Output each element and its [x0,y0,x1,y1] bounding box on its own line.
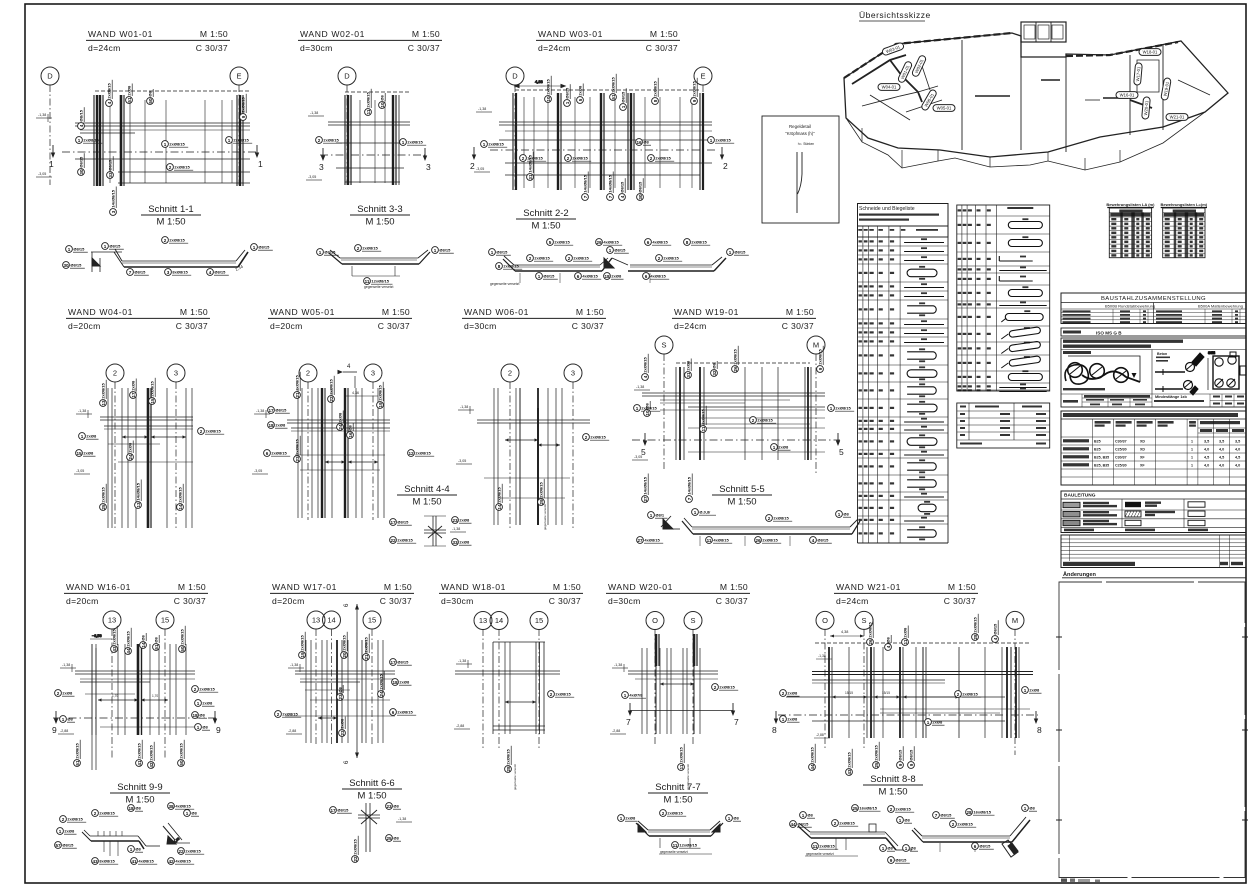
svg-text:9: 9 [241,115,246,118]
svg-text:2xØ8/15: 2xØ8/15 [653,80,658,96]
svg-text:W18-01: W18-01 [1143,50,1158,55]
labels Schnitt 1-1 [66,246,88,253]
svg-text:2: 2 [529,256,532,261]
svg-text:2xØ8: 2xØ8 [625,816,636,821]
svg-text:2xØ8/15: 2xØ8/15 [555,692,571,697]
svg-text:2xØ8/15: 2xØ8/15 [506,748,511,764]
section 4-4 cross detail [424,516,446,546]
svg-text:Schnitt 8-8: Schnitt 8-8 [870,774,915,785]
svg-text:9: 9 [818,367,823,370]
svg-text:d=24cm: d=24cm [538,43,571,53]
svg-text:WAND W18-01: WAND W18-01 [441,582,506,592]
svg-text:2xØ8: 2xØ8 [86,434,97,439]
svg-text:Ø8/15: Ø8/15 [109,244,121,249]
svg-text:1: 1 [838,512,841,517]
svg-text:M 1:50: M 1:50 [156,217,185,228]
svg-text:Ø8/15: Ø8/15 [621,91,626,103]
svg-text:7: 7 [129,270,132,275]
svg-text:2xØ8: 2xØ8 [131,380,136,391]
svg-text:7: 7 [626,717,631,727]
svg-text:2xØ8/15: 2xØ8/15 [590,435,606,440]
svg-text:1: 1 [624,693,627,698]
svg-text:17: 17 [330,808,336,813]
svg-text:4,0: 4,0 [1204,448,1209,452]
svg-text:Ø8: Ø8 [148,90,153,96]
axis lines W20 [654,629,656,745]
revision table [1061,535,1246,568]
labels Schnitt 6-6 [330,807,352,814]
svg-text:1: 1 [729,250,732,255]
dim arrows W16 [98,699,138,701]
labels W04 [79,433,99,440]
svg-text:Ø8/15: Ø8/15 [940,813,952,818]
svg-text:11: 11 [903,639,908,644]
svg-text:Ø8/15: Ø8/15 [909,749,914,761]
svg-text:24: 24 [338,424,343,430]
svg-text:M 1:50: M 1:50 [727,497,756,508]
labels Schnitt 7-7 [618,815,638,822]
svg-text:2xØ8/15: 2xØ8/15 [973,616,978,632]
svg-text:15/15: 15/15 [845,691,853,695]
svg-text:D: D [47,72,53,81]
svg-text:6: 6 [392,710,395,715]
svg-text:24: 24 [379,691,384,697]
svg-text:4xØ8/15: 4xØ8/15 [652,240,668,245]
svg-text:-2,88: -2,88 [456,724,464,728]
axis line D (W03) [514,85,516,190]
svg-text:Ø8: Ø8 [1029,806,1035,811]
svg-text:Regeldetail: Regeldetail [789,124,811,129]
svg-text:d=24cm: d=24cm [88,43,121,53]
svg-text:50: 50 [179,760,184,766]
svg-text:17: 17 [131,392,136,398]
labels W19 [634,405,661,412]
svg-text:2xØ8/15: 2xØ8/15 [180,628,185,644]
svg-text:1: 1 [773,445,776,450]
svg-text:Ø8: Ø8 [645,402,650,408]
svg-text:1: 1 [434,248,437,253]
svg-text:4,0: 4,0 [1235,464,1240,468]
svg-text:4,0: 4,0 [1204,464,1209,468]
svg-text:13: 13 [312,616,320,625]
svg-text:WAND W04-01: WAND W04-01 [68,307,133,317]
svg-text:6: 6 [266,451,269,456]
svg-text:2xØ8/15: 2xØ8/15 [241,96,246,112]
svg-text:18: 18 [128,806,134,811]
svg-text:-1,38: -1,38 [818,654,826,658]
svg-text:Ø8: Ø8 [712,362,717,368]
svg-text:-1,38: -1,38 [78,409,86,413]
svg-text:2: 2 [306,369,310,378]
section 3-3 drawing [329,250,430,276]
svg-text:WAND W16-01: WAND W16-01 [66,582,131,592]
svg-text:1: 1 [710,138,713,143]
svg-text:2xØ8/15: 2xØ8/15 [149,744,154,760]
Ruettelluecken box [1061,338,1246,407]
svg-text:2xØ8/15: 2xØ8/15 [112,628,117,644]
svg-text:13: 13 [108,616,116,625]
svg-text:Ø8: Ø8 [910,846,916,851]
labels W21 [780,690,800,697]
svg-text:Ø8: Ø8 [348,424,353,430]
svg-text:Ø8/15: Ø8/15 [337,808,349,813]
svg-text:14: 14 [497,504,502,510]
svg-text:Schnitt 7-7: Schnitt 7-7 [655,782,700,793]
svg-text:-1,38: -1,38 [290,663,298,667]
svg-text:W05-01: W05-01 [937,106,952,111]
svg-text:2xØ8/15: 2xØ8/15 [83,138,99,143]
svg-text:M 1:50: M 1:50 [576,307,604,317]
svg-text:1: 1 [197,725,200,730]
svg-text:WAND W02-01: WAND W02-01 [300,29,365,39]
svg-text:14xØ8/15: 14xØ8/15 [111,189,116,207]
svg-text:B500B Rundstabbewehrung: B500B Rundstabbewehrung [1105,304,1155,309]
section 1-1 drawing [91,249,248,272]
axis circle D (W02) [338,67,356,85]
section 2-2 drawing [503,256,726,283]
svg-text:2: 2 [277,712,280,717]
svg-text:4: 4 [79,124,84,127]
svg-text:2xØ8: 2xØ8 [778,445,789,450]
svg-text:M 1:50: M 1:50 [180,307,208,317]
svg-text:1: 1 [728,816,731,821]
svg-text:25: 25 [874,762,879,768]
svg-text:-1,38: -1,38 [478,107,486,111]
svg-text:M 1:50: M 1:50 [384,582,412,592]
svg-text:4: 4 [643,375,648,378]
svg-text:B25, B35: B25, B35 [1094,464,1109,468]
svg-text:6: 6 [974,844,977,849]
svg-text:2xØ8/15: 2xØ8/15 [107,82,112,98]
svg-text:Bewehrungslisten LA (m): Bewehrungslisten LA (m) [1106,202,1155,207]
svg-text:2xØ8/15: 2xØ8/15 [868,621,873,637]
svg-text:Ø8: Ø8 [393,836,399,841]
svg-text:19: 19 [300,652,305,658]
svg-text:d=30cm: d=30cm [300,43,333,53]
serpentine bar diagram [1065,356,1140,384]
svg-text:Schnitt 5-5: Schnitt 5-5 [719,484,764,495]
svg-text:Stüt: Stüt [1208,351,1216,355]
svg-text:gegenseite versetzt: gegenseite versetzt [513,764,517,790]
svg-text:1: 1 [491,250,494,255]
svg-text:2: 2 [662,811,665,816]
svg-text:1: 1 [650,513,653,518]
svg-text:WAND W03-01: WAND W03-01 [538,29,603,39]
svg-text:24: 24 [128,454,133,460]
svg-text:2: 2 [658,256,661,261]
svg-text:2xØ8/15: 2xØ8/15 [169,142,185,147]
svg-text:2: 2 [567,156,570,161]
building outline overview sketch [844,22,1228,170]
svg-text:10: 10 [645,410,650,416]
svg-text:2xØ8/15: 2xØ8/15 [329,378,334,394]
svg-text:2xØ8/15: 2xØ8/15 [488,142,504,147]
svg-text:57: 57 [55,843,61,848]
svg-text:30: 30 [63,263,69,268]
svg-text:1: 1 [62,717,65,722]
wall W05 linework [287,376,390,518]
svg-text:-3,05: -3,05 [634,455,642,459]
axis circle 13 (W17) [307,611,325,629]
svg-text:27: 27 [637,538,643,543]
svg-text:2xØ8/15: 2xØ8/15 [101,486,106,502]
svg-text:51: 51 [127,97,132,103]
svg-text:d=30cm: d=30cm [464,321,497,331]
svg-text:7: 7 [935,813,938,818]
svg-text:Ø8/15: Ø8/15 [565,87,570,99]
svg-text:7: 7 [583,195,588,198]
svg-text:14xØ8/15: 14xØ8/15 [136,482,141,500]
svg-text:gegenseite versetzt: gegenseite versetzt [490,282,519,286]
svg-text:2xØ8/15: 2xØ8/15 [643,356,648,372]
svg-text:2xØ8/15: 2xØ8/15 [362,246,378,251]
svg-text:2: 2 [194,687,197,692]
svg-text:gegenseite versetzt: gegenseite versetzt [806,852,834,856]
Beton exposure class table [1061,411,1246,485]
svg-text:Ø8/15: Ø8/15 [397,520,409,525]
svg-text:4xØ8/15: 4xØ8/15 [650,274,666,279]
svg-text:11: 11 [707,538,712,543]
cut arrows section 5-5 [643,441,647,447]
svg-text:Ø8/15: Ø8/15 [214,270,226,275]
svg-text:15: 15 [150,398,155,404]
svg-text:4: 4 [107,101,112,104]
svg-text:WAND W01-01: WAND W01-01 [88,29,153,39]
svg-text:2xØ8/15: 2xØ8/15 [667,811,683,816]
dim arrows W06 [505,439,538,441]
labels Schnitt 9-9 [60,816,87,823]
svg-text:Ø8: Ø8 [67,717,73,722]
svg-text:3: 3 [167,270,170,275]
labels W02 [316,137,343,144]
svg-text:B500A Mattenbewehrung: B500A Mattenbewehrung [1198,304,1243,309]
svg-text:Übersichtsskizze: Übersichtsskizze [859,10,931,20]
svg-text:4,5: 4,5 [1235,456,1240,460]
svg-text:1: 1 [905,846,908,851]
axis lines W19 [663,354,665,470]
svg-text:-2,88: -2,88 [288,729,296,733]
svg-text:43: 43 [847,769,852,775]
svg-text:21: 21 [364,654,369,660]
svg-text:M 1:50: M 1:50 [878,787,907,798]
cut arrows section 1-1 [51,153,55,159]
svg-text:Ø8: Ø8 [643,140,649,145]
svg-text:Ø8: Ø8 [393,804,399,809]
BAUSTAHLZUSAMMENSTELLUNG table [1061,293,1246,324]
svg-text:44: 44 [810,764,815,770]
svg-text:50: 50 [148,98,153,104]
svg-text:27: 27 [643,496,648,502]
svg-text:2xØ8/15: 2xØ8/15 [233,138,249,143]
svg-text:d=24cm: d=24cm [836,596,869,606]
svg-text:2xØ8/15: 2xØ8/15 [397,710,413,715]
svg-text:1: 1 [620,816,623,821]
svg-text:2xØ8/15: 2xØ8/15 [762,538,778,543]
svg-text:Schnitt 6-6: Schnitt 6-6 [349,778,394,789]
svg-text:1: 1 [927,720,930,725]
axis circle 2 (W05) [299,364,317,382]
svg-text:-3,05: -3,05 [308,175,316,179]
svg-text:2: 2 [568,256,571,261]
svg-text:18: 18 [268,423,274,428]
svg-text:3: 3 [174,369,178,378]
svg-text:E: E [236,72,241,81]
wall W06 linework [477,388,590,525]
svg-text:2xØ8/15: 2xØ8/15 [99,811,115,816]
svg-text:Ø8/15: Ø8/15 [324,250,336,255]
svg-text:2xØ8/15: 2xØ8/15 [295,438,300,454]
svg-text:2xØ8: 2xØ8 [128,442,133,453]
svg-text:2xØ8/15: 2xØ8/15 [378,384,383,400]
svg-text:C 30/37: C 30/37 [549,596,581,606]
svg-text:2xØ8/15: 2xØ8/15 [773,516,789,521]
wall W03 elevation linework [490,79,718,190]
axis circle 13 (W16) [103,611,121,629]
svg-text:2: 2 [470,161,475,171]
svg-text:4xØ7/8: 4xØ7/8 [629,693,643,698]
svg-text:26: 26 [733,366,738,372]
svg-text:E: E [700,72,705,81]
svg-text:Ø8/15: Ø8/15 [496,250,508,255]
svg-text:5: 5 [549,240,552,245]
svg-text:2: 2 [169,165,172,170]
svg-text:15: 15 [368,616,376,625]
svg-text:1: 1 [164,142,167,147]
svg-text:2xØ8/15: 2xØ8/15 [663,256,679,261]
svg-text:2: 2 [57,691,60,696]
svg-text:29: 29 [539,499,544,505]
svg-text:22: 22 [329,396,334,402]
svg-text:15: 15 [161,616,169,625]
svg-text:3: 3 [111,210,116,213]
svg-text:2xØ8/15: 2xØ8/15 [407,140,423,145]
svg-text:Ø8/15: Ø8/15 [543,274,555,279]
svg-text:11: 11 [679,764,684,769]
svg-text:Ø8: Ø8 [191,811,197,816]
svg-text:1: 1 [1191,448,1193,452]
svg-text:2: 2 [782,691,785,696]
axis line E (W03) [702,85,704,190]
svg-text:"Kröpfmass (h)": "Kröpfmass (h)" [785,131,815,136]
svg-text:2xØ8: 2xØ8 [83,451,94,456]
axis circle 2 (W06) [501,364,519,382]
axis line D [49,85,51,185]
svg-text:B25: B25 [1094,448,1101,452]
svg-text:1: 1 [186,811,189,816]
svg-text:8xØ8/15: 8xØ8/15 [172,270,188,275]
svg-text:4xØ8/15: 4xØ8/15 [713,538,729,543]
svg-text:9: 9 [216,725,221,735]
svg-text:XD: XD [1140,440,1145,444]
svg-text:M 1:50: M 1:50 [720,582,748,592]
svg-text:13: 13 [479,616,487,625]
svg-text:4xØ8/15: 4xØ8/15 [582,274,598,279]
vibration detail right 2 (column section) [1208,351,1246,390]
svg-text:44: 44 [790,822,796,827]
svg-text:2: 2 [550,692,553,697]
svg-text:M 1:50: M 1:50 [200,29,228,39]
svg-text:2xØ8/15: 2xØ8/15 [174,165,190,170]
svg-text:2xØ8/15: 2xØ8/15 [366,91,371,107]
svg-text:2xØ8/15: 2xØ8/15 [573,256,589,261]
axis circle M (W21) [1006,611,1024,629]
dim arrows W05 [325,461,345,463]
svg-text:8: 8 [1037,725,1042,735]
dim arrows W04 [122,436,148,438]
svg-text:C 30/37: C 30/37 [944,596,976,606]
svg-text:h=. Stärken: h=. Stärken [798,142,815,146]
section 8-8 drawing [798,817,1030,857]
svg-text:12: 12 [408,451,414,456]
svg-text:9: 9 [909,763,914,766]
svg-text:25: 25 [386,836,392,841]
svg-text:1: 1 [636,406,639,411]
svg-text:WAND W05-01: WAND W05-01 [270,307,335,317]
wall W21 linework [778,643,1038,738]
svg-text:XD: XD [1140,448,1145,452]
svg-text:2xØ8/15: 2xØ8/15 [101,382,106,398]
svg-text:Schnitt 3-3: Schnitt 3-3 [357,204,402,215]
svg-text:WAND W20-01: WAND W20-01 [608,582,673,592]
axis lines W21 [824,629,826,750]
svg-text:Ø8/15: Ø8/15 [397,660,409,665]
svg-text:1: 1 [81,434,84,439]
svg-text:gegenseite versetzt: gegenseite versetzt [543,504,547,530]
svg-text:14: 14 [178,504,183,510]
svg-text:M: M [1012,616,1018,625]
svg-text:2xØ8/15: 2xØ8/15 [895,807,911,812]
svg-text:Ø8: Ø8 [154,636,159,642]
svg-text:2xØ8/15: 2xØ8/15 [539,481,544,497]
svg-text:43: 43 [112,646,117,652]
svg-text:2: 2 [723,161,728,171]
axis circle O (W20) [646,612,664,630]
wall tags on overview [882,42,905,56]
svg-text:4xØ8/15: 4xØ8/15 [175,804,191,809]
svg-text:44: 44 [126,648,131,654]
svg-text:2xØ8/15: 2xØ8/15 [719,685,735,690]
svg-text:2xØ8/15: 2xØ8/15 [962,692,978,697]
svg-text:2xØ8/15: 2xØ8/15 [572,156,588,161]
svg-text:1: 1 [402,140,405,145]
svg-text:11: 11 [813,844,818,849]
svg-text:D: D [344,72,350,81]
axis circle 3 (W04) [167,364,185,382]
svg-text:2xØ8/15: 2xØ8/15 [839,821,855,826]
svg-text:3: 3 [319,162,324,172]
svg-text:2xØ8/15: 2xØ8/15 [415,451,431,456]
svg-text:ØB/15: ØB/15 [79,109,84,121]
axis circle M (W19) [807,336,825,354]
svg-text:30: 30 [638,194,643,200]
axis circle 2 (W04) [106,364,124,382]
svg-text:Ø8/15: Ø8/15 [70,263,82,268]
svg-text:16: 16 [636,140,642,145]
svg-text:Ø8/15: Ø8/15 [134,270,146,275]
svg-text:M 1:50: M 1:50 [178,582,206,592]
svg-text:2xØ8/15: 2xØ8/15 [353,838,358,854]
svg-text:14xØ8/15: 14xØ8/15 [528,154,533,172]
svg-text:Ø8: Ø8 [141,634,146,640]
axis circle 14 (W18) [490,612,508,630]
svg-text:Ø8: Ø8 [843,512,849,517]
svg-text:4: 4 [993,637,998,640]
axis lines W18 [482,629,484,750]
svg-text:W16-01: W16-01 [1120,93,1135,98]
labels W05 [268,407,290,414]
axis circle E (W03) [694,67,712,85]
svg-text:-1,38: -1,38 [310,111,318,115]
